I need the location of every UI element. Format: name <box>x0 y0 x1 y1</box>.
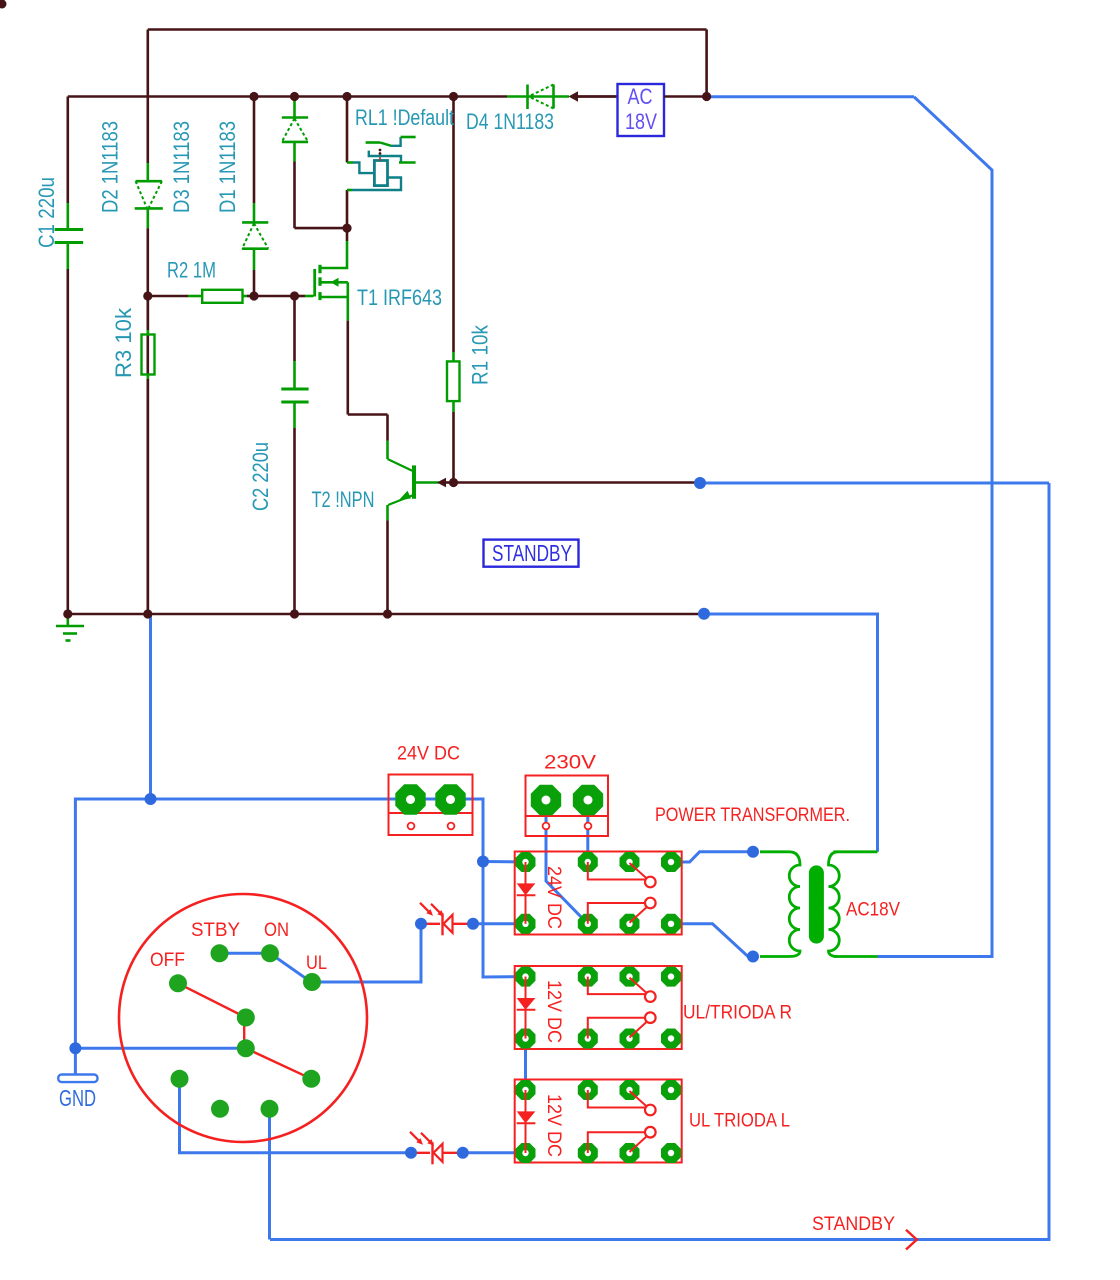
svg-text:12V DC: 12V DC <box>543 980 564 1043</box>
svg-text:18V: 18V <box>625 109 657 134</box>
svg-text:UL: UL <box>306 953 327 974</box>
svg-text:24V DC: 24V DC <box>543 866 564 929</box>
svg-text:RL1 !Default: RL1 !Default <box>355 105 454 130</box>
svg-text:T2 !NPN: T2 !NPN <box>312 487 375 512</box>
svg-text:AC: AC <box>628 84 653 109</box>
svg-text:D3 1N1183: D3 1N1183 <box>169 121 194 213</box>
svg-text:POWER TRANSFORMER.: POWER TRANSFORMER. <box>655 805 850 826</box>
svg-text:D2 1N1183: D2 1N1183 <box>98 121 123 213</box>
svg-text:T1 IRF643: T1 IRF643 <box>357 285 442 310</box>
svg-text:STANDBY: STANDBY <box>812 1214 895 1235</box>
svg-text:STANDBY: STANDBY <box>492 540 572 566</box>
svg-text:OFF: OFF <box>150 950 185 971</box>
svg-text:24V DC: 24V DC <box>397 744 460 765</box>
svg-text:R2 1M: R2 1M <box>167 258 216 283</box>
svg-text:GND: GND <box>59 1085 96 1111</box>
svg-text:D1 1N1183: D1 1N1183 <box>215 121 240 213</box>
svg-text:R3 10k: R3 10k <box>111 307 136 378</box>
svg-text:UL TRIODA L: UL TRIODA L <box>689 1111 790 1132</box>
svg-text:ON: ON <box>264 920 289 941</box>
svg-text:R1 10k: R1 10k <box>468 324 493 385</box>
svg-text:D4 1N1183: D4 1N1183 <box>466 109 554 134</box>
svg-text:STBY: STBY <box>191 920 240 941</box>
svg-text:230V: 230V <box>544 753 596 774</box>
svg-text:C1 220u: C1 220u <box>34 177 59 248</box>
svg-text:AC18V: AC18V <box>846 900 900 921</box>
svg-text:C2 220u: C2 220u <box>248 442 273 511</box>
svg-text:12V DC: 12V DC <box>543 1094 564 1157</box>
svg-text:UL/TRIODA R: UL/TRIODA R <box>683 1003 792 1024</box>
